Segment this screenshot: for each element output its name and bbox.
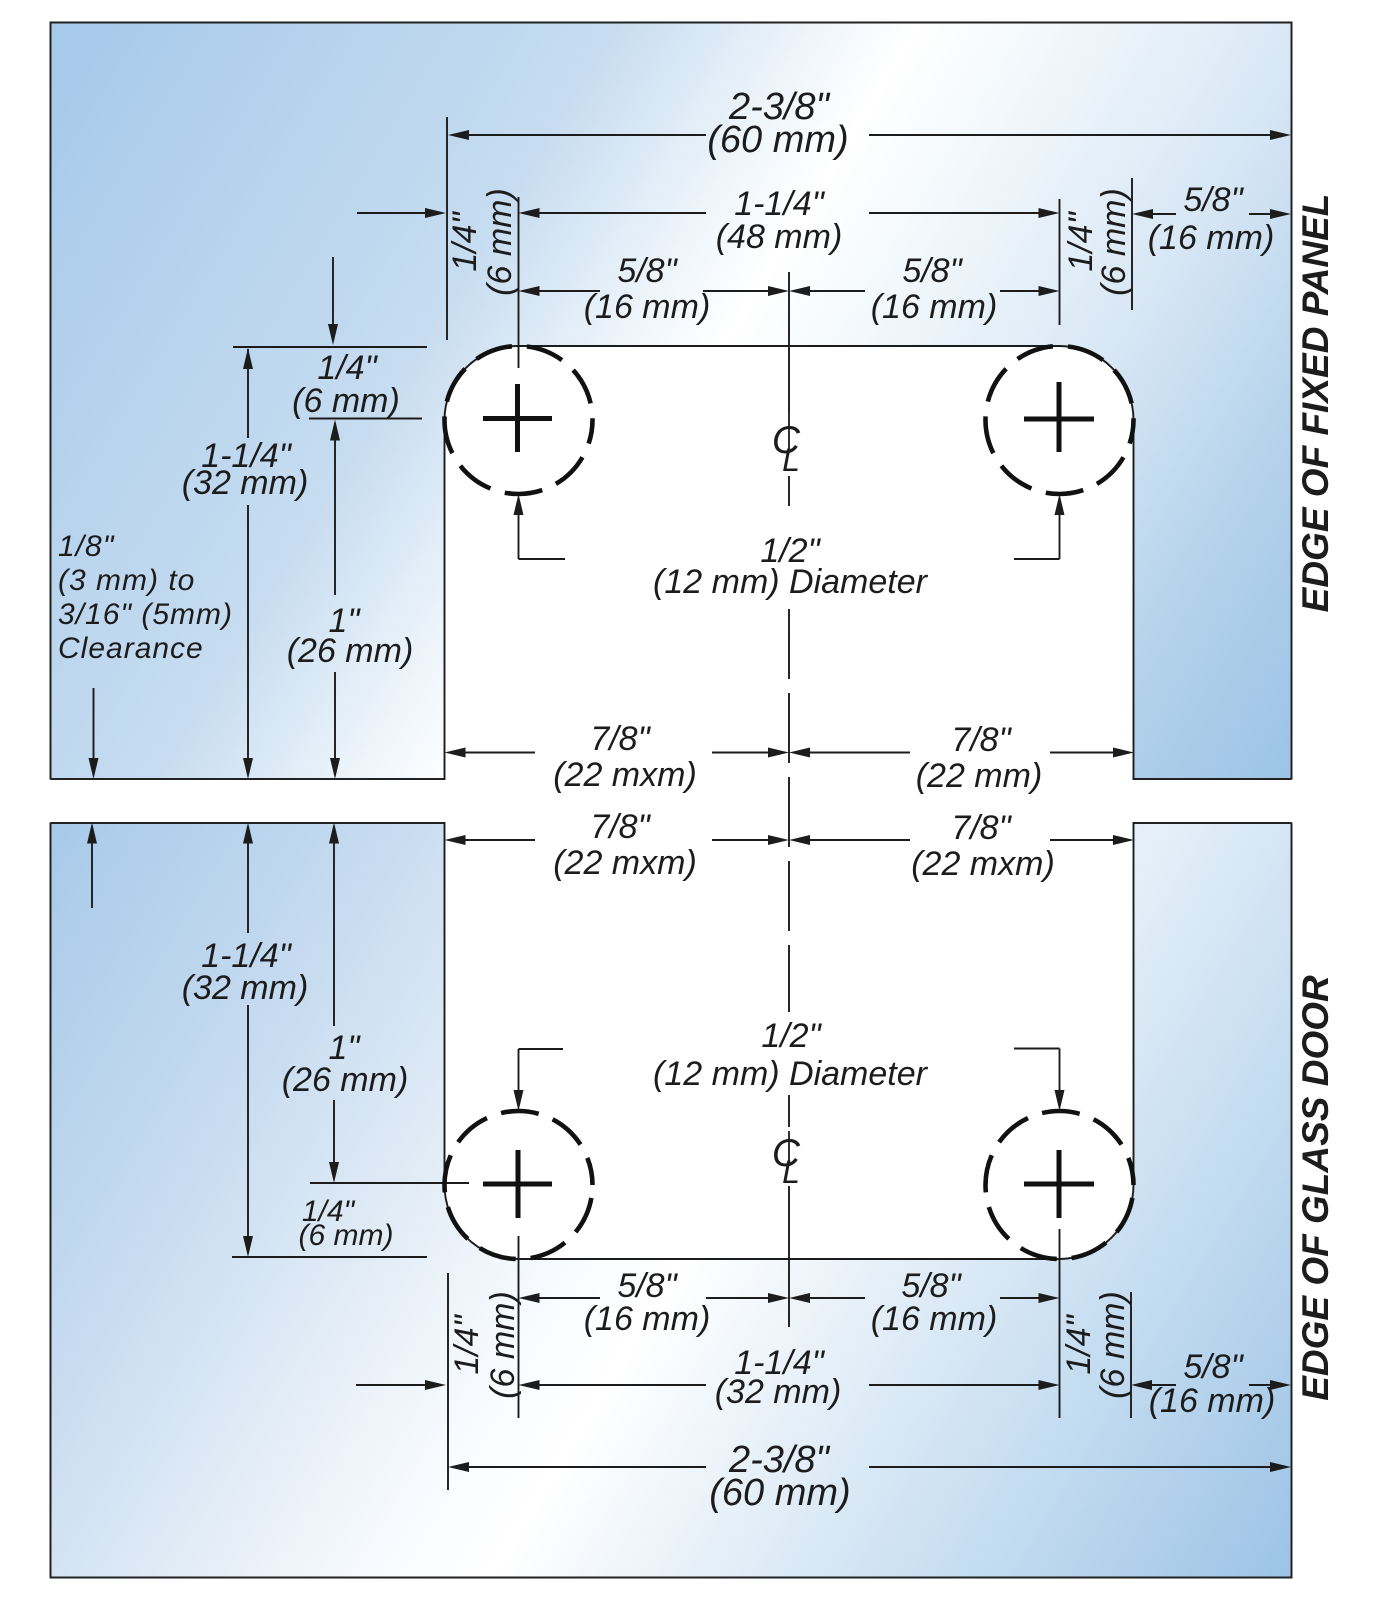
- svg-text:7/8": 7/8": [951, 809, 1012, 847]
- svg-text:(6 mm): (6 mm): [481, 188, 519, 296]
- glass door border: [51, 823, 1292, 1578]
- dimension 5/8in 16mm left-of-center (bottom): [519, 1267, 790, 1338]
- dimension 7/8in 22mm right (top section bottom): [789, 721, 1134, 795]
- svg-text:EDGE OF FIXED PANEL: EDGE OF FIXED PANEL: [1295, 194, 1336, 613]
- svg-text:7/8": 7/8": [951, 721, 1012, 759]
- dimension 2-3/8in 60mm (bottom width): [448, 1439, 1291, 1514]
- dimension 1-1/4in 32mm vertical (top left): [182, 348, 309, 779]
- centerline dash below CL (top): [788, 476, 790, 506]
- dimension 5/8in 16mm right-of-center (bottom): [789, 1267, 1060, 1338]
- svg-text:(22 mxm): (22 mxm): [911, 845, 1055, 883]
- svg-text:Clearance: Clearance: [58, 632, 204, 665]
- dimension 5/8in 16mm right-of-center (top): [789, 252, 1060, 326]
- fixed panel border: [51, 23, 1292, 780]
- extension line left of cutout (bottom) x=448: [447, 1273, 449, 1490]
- dimension 1-1/4in 32mm vertical (bottom left): [182, 823, 309, 1258]
- extension line right hole center (bottom) x=1059.5: [1059, 1229, 1061, 1418]
- svg-text:(32 mm): (32 mm): [182, 464, 309, 502]
- label 1/4in 6mm (top left horizontal): [292, 349, 400, 420]
- label 1/2in 12mm diameter (bottom holes): [653, 1017, 929, 1093]
- svg-text:(12 mm) Diameter: (12 mm) Diameter: [653, 1055, 929, 1093]
- extension line cutout top edge to left y=347: [233, 346, 427, 348]
- extension line right of cutout (bottom) x=1131: [1130, 1292, 1132, 1418]
- svg-text:1/8": 1/8": [58, 530, 115, 563]
- fixed panel glass (top): [51, 23, 1292, 780]
- extension line left of cutout (top) x=447: [446, 117, 448, 340]
- svg-text:(6 mm): (6 mm): [1095, 188, 1133, 296]
- svg-text:7/8": 7/8": [590, 720, 651, 758]
- svg-text:7/8": 7/8": [590, 808, 651, 846]
- outside arrow for 1/4in dim (top left): [328, 257, 338, 345]
- svg-text:5/8": 5/8": [902, 252, 963, 290]
- svg-text:(6 mm): (6 mm): [292, 382, 400, 420]
- svg-text:5/8": 5/8": [1183, 1348, 1244, 1386]
- svg-text:1/4": 1/4": [446, 210, 484, 271]
- svg-text:(16 mm): (16 mm): [584, 1300, 711, 1338]
- long dashed centerline between sections: [788, 609, 790, 1012]
- svg-text:(3 mm) to: (3 mm) to: [58, 564, 195, 597]
- svg-text:(16 mm): (16 mm): [1148, 219, 1275, 257]
- svg-text:(22 mxm): (22 mxm): [553, 756, 697, 794]
- svg-text:(6 mm): (6 mm): [484, 1291, 522, 1399]
- svg-text:5/8": 5/8": [1183, 181, 1244, 219]
- dimension 5/8in 16mm (bottom right edge distance): [1131, 1348, 1291, 1420]
- svg-text:(60 mm): (60 mm): [707, 119, 848, 161]
- svg-text:(16 mm): (16 mm): [1149, 1382, 1276, 1420]
- leader arrow to left hole (bottom): [514, 1049, 564, 1111]
- glass door (bottom): [51, 823, 1292, 1578]
- svg-text:(16 mm): (16 mm): [584, 288, 711, 326]
- svg-text:(16 mm): (16 mm): [871, 1300, 998, 1338]
- dimension 7/8in 22mxm right (bottom section top): [789, 809, 1134, 883]
- svg-text:1/2": 1/2": [761, 1017, 822, 1055]
- leader arrow to right hole (bottom): [1014, 1049, 1065, 1112]
- centerline symbol CL (bottom): [772, 1131, 801, 1190]
- extension line right hole center (top) x=1059.5: [1059, 199, 1061, 325]
- leader arrow to right hole (top): [1014, 494, 1065, 559]
- extension line left hole center (top) x=518.5: [518, 197, 520, 368]
- svg-text:(22 mxm): (22 mxm): [553, 844, 697, 882]
- svg-text:(26 mm): (26 mm): [287, 632, 414, 670]
- svg-text:(32 mm): (32 mm): [182, 969, 309, 1007]
- drill hole circle left (bottom): [445, 1111, 593, 1259]
- dimension 5/8in 16mm (top right edge distance): [1132, 181, 1291, 257]
- vertical centerline (top section): [788, 272, 790, 412]
- crosshair right hole (top): [1024, 382, 1094, 452]
- svg-text:(32 mm): (32 mm): [715, 1373, 842, 1411]
- dimension 7/8in 22mxm left (top section bottom): [445, 720, 790, 794]
- svg-text:(16 mm): (16 mm): [871, 288, 998, 326]
- dimension 1-1/4in 48mm (hole spacing top): [357, 185, 1060, 256]
- label 1/4in 6mm (bottom left horizontal): [299, 1195, 394, 1252]
- extension line cutout bottom edge to left y=1257: [232, 1256, 427, 1258]
- crosshair left hole (bottom): [483, 1150, 552, 1218]
- clearance arrow down (top panel): [89, 688, 99, 779]
- centerline dash above CL (bottom): [788, 1095, 790, 1127]
- dimension 1in 26mm vertical (bottom left): [282, 823, 409, 1184]
- svg-text:1/4": 1/4": [448, 1313, 486, 1374]
- extension line right of cutout (top) x=1132: [1131, 178, 1133, 310]
- svg-text:L: L: [782, 1154, 800, 1190]
- clearance note text: [58, 530, 233, 665]
- svg-text:(60 mm): (60 mm): [709, 1472, 850, 1514]
- svg-text:L: L: [782, 442, 800, 478]
- svg-text:5/8": 5/8": [617, 252, 678, 290]
- crosshair right hole (bottom): [1024, 1150, 1094, 1218]
- dimension 1-1/4in 32mm (hole spacing bottom): [356, 1344, 1060, 1411]
- label 1/2in 12mm diameter (top holes): [653, 532, 929, 601]
- svg-text:(6 mm): (6 mm): [1094, 1291, 1132, 1399]
- svg-text:(12 mm) Diameter: (12 mm) Diameter: [653, 563, 929, 601]
- clearance arrow up (bottom panel): [87, 823, 97, 909]
- svg-text:EDGE OF GLASS DOOR: EDGE OF GLASS DOOR: [1295, 975, 1336, 1401]
- extension line hole center level to left y=1183: [310, 1182, 469, 1184]
- leader arrow to left hole (top): [514, 494, 566, 559]
- hinge cutout in glass door: [445, 822, 1134, 1259]
- drill hole circle right (top): [986, 346, 1134, 494]
- svg-text:(48 mm): (48 mm): [716, 218, 843, 256]
- vertical centerline (bottom section): [788, 1186, 790, 1327]
- rotated label 1/4in 6mm (top left): [446, 188, 519, 296]
- extension line hole center level to left y=418.5: [309, 418, 422, 420]
- crosshair left hole (top): [483, 384, 552, 452]
- svg-text:3/16" (5mm): 3/16" (5mm): [58, 598, 233, 631]
- centerline symbol CL (top): [772, 412, 801, 478]
- dimension 5/8in 16mm left-of-center (top): [519, 252, 790, 326]
- svg-text:(22 mm): (22 mm): [916, 757, 1043, 795]
- hinge cutout in fixed panel: [445, 346, 1134, 780]
- svg-text:(26 mm): (26 mm): [282, 1061, 409, 1099]
- rotated label 1/4in 6mm (bottom right): [1060, 1291, 1132, 1399]
- dimension 2-3/8in 60mm (top width): [448, 86, 1291, 161]
- rotated label 1/4in 6mm (top right): [1062, 188, 1133, 296]
- drill hole circle left (top): [445, 346, 593, 494]
- rotated label 1/4in 6mm (bottom left): [448, 1291, 522, 1399]
- dimension 1in 26mm vertical (top left): [287, 420, 414, 780]
- svg-text:(6 mm): (6 mm): [299, 1219, 394, 1252]
- extension line left hole center (bottom) x=518.5: [518, 1236, 520, 1418]
- drill hole circle right (bottom): [986, 1111, 1134, 1259]
- dimension 7/8in 22mxm left (bottom section top): [445, 808, 790, 882]
- svg-text:1/4": 1/4": [1060, 1313, 1098, 1374]
